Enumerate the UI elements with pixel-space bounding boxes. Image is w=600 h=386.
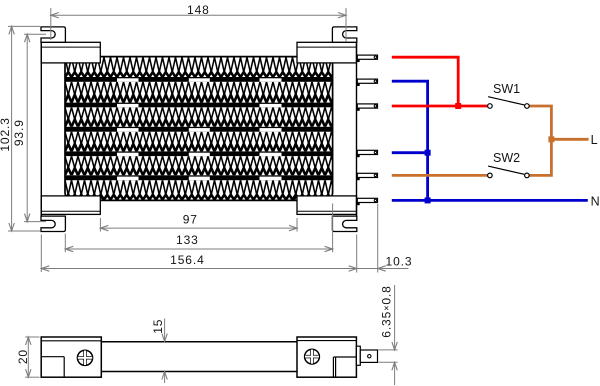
PTC stone bar 3 <box>65 127 333 132</box>
wire blue from terminal 4 <box>392 151 428 154</box>
junction node blue N <box>425 197 431 203</box>
side view left end block <box>41 337 101 377</box>
terminal tab 2 <box>357 80 360 86</box>
wire orange SW1 to SW2 via L junction <box>529 106 551 175</box>
fin area corner joins at frame bars <box>101 196 107 201</box>
dimension 93.9 left <box>24 33 46 35</box>
terminal tab 5 <box>357 174 360 180</box>
svg-text:102.3: 102.3 <box>0 117 12 152</box>
side view right bracket lines <box>334 356 357 358</box>
PTC stone bar 5 <box>65 175 333 180</box>
dimension 20 <box>25 336 39 338</box>
fin row 5 <box>65 156 333 175</box>
bottom-right mounting bracket <box>332 216 356 231</box>
switch SW1 <box>488 97 524 105</box>
svg-text:L: L <box>591 133 598 147</box>
svg-text:SW2: SW2 <box>493 151 520 165</box>
top-right frame bar <box>297 42 357 63</box>
terminal tab 3 <box>357 105 360 111</box>
fin row 6 <box>65 180 333 199</box>
side view body slab <box>101 341 297 343</box>
svg-text:133: 133 <box>176 233 199 247</box>
fin row 4 <box>65 132 333 152</box>
svg-text:10.3: 10.3 <box>386 254 413 268</box>
bottom-left mounting bracket <box>41 216 65 231</box>
svg-text:N: N <box>591 194 600 208</box>
PTC stone bar 1 <box>65 77 333 82</box>
wire red from terminal 3 to SW1 <box>392 105 488 108</box>
dimension 148 top <box>50 8 52 40</box>
top-left mounting bracket <box>41 27 65 42</box>
svg-text:156.4: 156.4 <box>170 253 205 267</box>
dimension 6.35x0.8 <box>378 349 397 351</box>
dimension 97 bottom <box>99 218 101 232</box>
svg-text:6.35×0.8: 6.35×0.8 <box>380 285 394 338</box>
wire red from terminal 1 <box>392 57 458 106</box>
wire orange from terminal 5 to SW2 <box>392 174 488 177</box>
screw left <box>77 350 92 365</box>
side view left bracket lines <box>41 356 64 358</box>
screw right <box>305 349 320 364</box>
svg-text:93.9: 93.9 <box>12 119 26 146</box>
svg-text:SW1: SW1 <box>493 82 520 96</box>
dimension 156.4 bottom <box>40 235 42 273</box>
bottom-left frame bar <box>41 196 100 215</box>
PTC stone bar 4 <box>65 151 333 156</box>
terminal tab 4 <box>357 151 360 157</box>
terminal tab 1 <box>357 56 360 62</box>
junction node blue T4 <box>425 150 431 156</box>
left end plate edge <box>40 42 42 216</box>
right end plate edge <box>356 42 358 216</box>
terminal tab 6 <box>357 199 360 205</box>
bottom-right frame bar <box>297 196 357 215</box>
fin row 3 <box>65 107 333 127</box>
svg-text:148: 148 <box>187 3 210 17</box>
wire blue terminal 6 / N line <box>392 199 588 202</box>
dimension 15 <box>164 319 166 342</box>
dimension 133 bottom <box>64 234 66 253</box>
wire blue from terminal 2 <box>392 81 428 200</box>
dimension 102.3 left <box>8 25 40 27</box>
side view right end block <box>297 337 356 377</box>
fin row 1 <box>65 57 333 77</box>
svg-text:15: 15 <box>151 319 165 334</box>
svg-text:97: 97 <box>183 213 198 227</box>
junction node red <box>455 103 461 109</box>
dimension 10.3 right <box>377 204 379 273</box>
svg-text:20: 20 <box>16 349 30 364</box>
fins block outline <box>65 57 333 201</box>
terminal side profile <box>356 346 360 365</box>
top-right mounting bracket <box>332 27 356 42</box>
wire orange L branch <box>551 138 588 141</box>
heater front view: corrugated fin element <box>65 57 333 199</box>
switch SW2 <box>488 166 524 174</box>
PTC stone bar 2 <box>65 103 333 108</box>
fin row 2 <box>65 82 333 103</box>
top-left frame bar <box>41 42 100 63</box>
junction node orange <box>548 136 554 142</box>
